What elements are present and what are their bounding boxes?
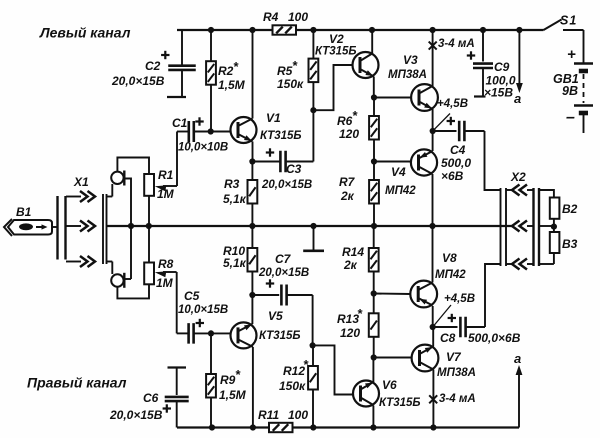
svg-text:C6: C6 (143, 391, 159, 405)
headphone B2 (550, 198, 560, 219)
resistor R7 (369, 162, 379, 227)
label C1 value (178, 142, 228, 154)
label battery minus (566, 109, 575, 126)
wire X1 middle contact row (66, 225, 81, 227)
label B3 (562, 237, 578, 251)
label V8 (435, 251, 466, 281)
wire V7 emitter up (432, 327, 434, 347)
label C1 plus (195, 117, 203, 125)
junction R6 bottom / V4 base (371, 158, 377, 164)
battery GB1 (574, 64, 593, 134)
wire X2 bottom row (506, 253, 554, 264)
svg-text:*: * (235, 367, 241, 382)
label C4 (441, 143, 471, 183)
capacitor C2 (167, 30, 196, 97)
svg-text:100: 100 (288, 10, 308, 24)
svg-text:10,0×10В: 10,0×10В (178, 142, 228, 154)
wire B3 top (553, 226, 555, 232)
capacitor C7 (252, 285, 312, 306)
resistor R3 (248, 162, 258, 227)
wire C7 to R12 node (312, 295, 314, 345)
switch S1 (544, 20, 584, 31)
wire V8 base (374, 293, 411, 296)
junction on top rail (369, 27, 375, 33)
resistor R13 (369, 294, 379, 358)
svg-text:R1: R1 (158, 168, 174, 182)
svg-text:×15В: ×15В (484, 86, 513, 100)
wire C3 to R5 node (312, 110, 314, 161)
wire V4 base (374, 161, 411, 163)
wire R1 to middle rail (148, 196, 150, 226)
wire V2 base path (313, 65, 353, 110)
svg-text:R7: R7 (339, 175, 356, 189)
label battery plus (567, 46, 576, 63)
resistor R2 (206, 30, 216, 132)
svg-text:2к: 2к (340, 189, 355, 203)
junction on middle rail (249, 223, 255, 229)
svg-text:20,0×15В: 20,0×15В (111, 74, 165, 88)
label R6 120 (337, 108, 359, 141)
junction on bottom rail (370, 424, 376, 430)
svg-text:+4,5В: +4,5В (437, 98, 468, 110)
junction on bottom rail (209, 424, 215, 430)
wire V8 emitter down (432, 306, 434, 327)
wire top circle to R1 (117, 158, 149, 175)
ground symbol (303, 226, 324, 251)
junction V2 emitter / R6 / V3 base (371, 94, 377, 100)
label C3 plus (266, 148, 274, 156)
R1 wiper arrow (155, 185, 177, 191)
connector X2 socket side (501, 188, 507, 266)
label R8 1M (156, 257, 174, 290)
junction on bottom rail (310, 424, 316, 430)
wire V7 collector down with current mark (432, 370, 434, 428)
svg-text:1М: 1М (156, 276, 174, 290)
wire top supply rail (177, 29, 544, 31)
wire V5 collector down (252, 347, 254, 428)
svg-text:В3: В3 (562, 237, 578, 251)
svg-text:V1: V1 (266, 111, 281, 125)
svg-text:150к: 150к (277, 77, 304, 91)
label B2 (562, 202, 578, 216)
wire V3 emitter down (432, 109, 434, 131)
junction output node (top) (430, 128, 436, 134)
node a (bottom) arrow (516, 365, 523, 428)
svg-text:R4: R4 (263, 10, 279, 24)
svg-text:+: + (567, 46, 576, 63)
label C7 (258, 252, 309, 279)
wire C4 to X2 top row (485, 131, 501, 190)
resistor R10 (248, 226, 258, 295)
svg-text:C7: C7 (275, 252, 292, 266)
svg-text:V6: V6 (382, 378, 397, 392)
wire V7 base (374, 357, 412, 359)
wire V6 emitter up (372, 358, 374, 383)
wire X2 middle row (527, 225, 554, 227)
junction on middle rail (146, 223, 152, 229)
connector X2 plug side (534, 188, 540, 266)
label C9 (484, 60, 516, 100)
wire bottom circle contact (124, 278, 131, 280)
svg-text:V3: V3 (403, 53, 418, 67)
label S1 (560, 14, 577, 28)
svg-text:КТ315Б: КТ315Б (315, 46, 357, 58)
wire top circle contact to center tap (124, 179, 131, 280)
label R14 2k (342, 245, 364, 272)
potentiometer R1 (144, 174, 154, 196)
label R1 1M (157, 168, 175, 201)
svg-text:120: 120 (339, 127, 359, 141)
label left channel (39, 25, 131, 41)
wire V4 collector to middle rail (432, 174, 434, 226)
resistor R5 (309, 30, 319, 110)
label +4.5V (bottom) (433, 293, 475, 327)
svg-text:В1: В1 (16, 205, 32, 219)
junction on top rail (480, 27, 486, 33)
resistor R6 (369, 98, 379, 162)
svg-text:×6В: ×6В (441, 169, 464, 183)
wire X1 top contact row (66, 184, 112, 197)
svg-text:R14: R14 (342, 245, 364, 259)
capacitor C6 (165, 368, 189, 428)
label R5 150k (277, 58, 304, 91)
junction on middle rail (310, 223, 316, 229)
wire bottom circle to R8 (117, 285, 149, 299)
svg-text:C1: C1 (172, 116, 188, 130)
wire V6 collector down (372, 406, 374, 428)
transistor V3 (411, 84, 438, 111)
connector X1 socket side (103, 194, 107, 264)
svg-text:20,0×15В: 20,0×15В (261, 179, 312, 191)
wire X1 bottom contact row (66, 262, 112, 275)
svg-text:C3: C3 (286, 162, 302, 176)
resistor R12 (308, 345, 318, 427)
socket contact circle (bottom) (111, 273, 124, 288)
junction V1 emitter node (249, 158, 255, 164)
current mark 3-4mA (bottom) (429, 395, 437, 403)
svg-text:КТ315Б: КТ315Б (379, 397, 421, 409)
capacitor C5 (177, 272, 232, 344)
junction on top rail (430, 27, 436, 33)
svg-text:МП38А: МП38А (437, 367, 476, 379)
svg-text:*: * (352, 108, 358, 123)
wire V4 emitter up (432, 131, 434, 151)
label C1 (172, 116, 188, 130)
svg-text:КТ315Б: КТ315Б (259, 330, 301, 342)
svg-text:500,0: 500,0 (441, 156, 471, 170)
svg-text:В2: В2 (562, 202, 578, 216)
label C3 (286, 162, 302, 176)
wire B2 to common (553, 219, 555, 226)
junction output node (bottom) (430, 324, 436, 330)
wire C8 to X2 bottom row (485, 264, 500, 327)
label R3 5.1k (223, 177, 247, 206)
svg-text:20,0×15В: 20,0×15В (258, 267, 309, 279)
svg-text:V2: V2 (329, 32, 344, 46)
wire battery top lead (583, 30, 585, 63)
label X1 (73, 175, 89, 189)
transistor V2 (353, 52, 379, 78)
contact arrow X2 bottom (512, 259, 527, 270)
svg-text:R2: R2 (218, 64, 234, 78)
svg-text:R6: R6 (337, 114, 353, 128)
junction on bottom rail (250, 424, 256, 430)
R8 wiper arrow (155, 271, 177, 277)
svg-text:500,0×6В: 500,0×6В (468, 331, 521, 345)
svg-text:МП42: МП42 (435, 269, 466, 281)
svg-text:МП38А: МП38А (388, 69, 427, 81)
transistor V1 (231, 117, 257, 143)
svg-text:2к: 2к (343, 258, 358, 272)
svg-text:КТ315Б: КТ315Б (260, 130, 302, 142)
svg-text:V8: V8 (442, 251, 457, 265)
wire V6 base path (313, 345, 353, 394)
svg-text:С8: С8 (440, 331, 456, 345)
resistor R11 (269, 423, 293, 432)
junction on middle rail (371, 223, 377, 229)
junction R12/C7/V6 base node (310, 342, 316, 348)
wire V2 collector to top rail (371, 30, 373, 54)
label V4 (385, 165, 416, 197)
junction on middle rail (429, 223, 435, 229)
svg-text:3-4 мА: 3-4 мА (438, 38, 475, 50)
svg-text:R3: R3 (224, 177, 240, 191)
label GB1 9V (553, 72, 579, 98)
junction V5 emitter node (249, 292, 255, 298)
svg-text:5,1к: 5,1к (223, 192, 247, 206)
label C5 (178, 289, 228, 316)
label V3 (388, 53, 427, 81)
resistor R9 (206, 333, 216, 427)
junction on middle rail (128, 223, 134, 229)
svg-text:C9: C9 (494, 60, 510, 74)
svg-text:S1: S1 (560, 14, 577, 28)
svg-text:X1: X1 (73, 175, 89, 189)
label C5 plus (196, 319, 204, 327)
label R2 1.5M (218, 59, 246, 92)
label 3-4 mA (bottom) (439, 393, 476, 405)
junction on top rail (310, 27, 316, 33)
transistor V4 (411, 149, 437, 175)
contact arrow X1 middle (80, 221, 95, 232)
junction C1/R2/V1 base (208, 128, 214, 134)
junction V6 emitter / R13 / V7 base (371, 354, 377, 360)
junction on top rail (208, 27, 214, 33)
resistor R4 (273, 25, 297, 34)
svg-text:150к: 150к (279, 379, 306, 393)
svg-text:*: * (233, 59, 239, 74)
junction on top rail (516, 27, 522, 33)
svg-text:МП42: МП42 (385, 185, 416, 197)
svg-text:10,0×15В: 10,0×15В (178, 304, 228, 316)
transistor V8 (410, 281, 437, 308)
transducer B1 (4, 219, 52, 236)
label C6 plus (163, 404, 171, 412)
svg-text:120: 120 (340, 326, 360, 340)
label V7 (437, 350, 476, 379)
current mark 3-4mA (top) (429, 42, 437, 50)
label C3 value (261, 179, 312, 191)
svg-text:*: * (357, 306, 363, 321)
label X2 (510, 170, 526, 184)
label V6 (379, 378, 421, 409)
label B1 (16, 205, 32, 219)
svg-text:а: а (514, 351, 521, 366)
label R7 2k (339, 175, 356, 203)
contact arrow X1 top (80, 191, 95, 202)
connector X1 plug side (58, 196, 66, 260)
svg-text:R9: R9 (220, 373, 236, 387)
capacitor C4 (433, 121, 485, 142)
label C7 plus (266, 279, 274, 287)
node a (top) arrow (516, 30, 523, 93)
junction on top rail (249, 27, 255, 33)
capacitor C1 (177, 121, 232, 142)
label C2 (111, 59, 165, 88)
wire bottom supply rail (177, 426, 519, 428)
junction R14 bottom / V8 base (371, 290, 377, 296)
transistor V6 (353, 381, 379, 407)
svg-text:R11: R11 (258, 408, 279, 422)
svg-text:C5: C5 (184, 289, 200, 303)
potentiometer R8 (144, 263, 154, 285)
svg-text:R13: R13 (337, 312, 359, 326)
svg-text:R5: R5 (277, 64, 293, 78)
label R4 100 (263, 10, 308, 24)
label R11 100 (258, 408, 308, 422)
junction C5/R9/V5 base (208, 330, 214, 336)
label right channel (27, 375, 127, 391)
wire V2 emitter down (373, 77, 375, 98)
socket contact circle (top) (111, 171, 124, 186)
svg-text:20,0×15В: 20,0×15В (109, 408, 163, 422)
svg-text:C2: C2 (145, 59, 161, 73)
wire V3 base (374, 97, 412, 99)
svg-text:V7: V7 (446, 350, 462, 364)
svg-text:–: – (566, 109, 575, 126)
svg-text:1М: 1М (157, 187, 175, 201)
capacitor C8 (433, 317, 485, 338)
label C9 plus (467, 51, 475, 59)
svg-text:+4,5В: +4,5В (444, 293, 475, 305)
svg-text:1,5М: 1,5М (219, 388, 247, 402)
label V2 (315, 32, 357, 58)
svg-text:а: а (514, 91, 521, 106)
svg-text:5,1к: 5,1к (223, 256, 247, 270)
label R12 150k (279, 357, 309, 393)
label R13 120 (337, 306, 363, 340)
svg-text:C4: C4 (450, 143, 466, 157)
wire middle common rail (107, 225, 513, 227)
label V1 (260, 111, 302, 142)
label C8 plus (448, 314, 456, 322)
svg-text:3-4 мА: 3-4 мА (439, 393, 476, 405)
svg-text:Правый канал: Правый канал (27, 375, 127, 391)
junction B2/B3 common (551, 224, 557, 230)
capacitor C9 (473, 30, 493, 97)
svg-text:R12: R12 (283, 364, 305, 378)
svg-text:V5: V5 (268, 309, 283, 323)
resistor R14 (369, 226, 379, 294)
wire V8 collector to middle rail (432, 226, 434, 283)
label C2 plus (161, 51, 169, 59)
wire R1 wiper to C1 (176, 132, 178, 187)
svg-text:100: 100 (288, 408, 308, 422)
wire V3 collector to rail with current mark (432, 30, 434, 86)
label C4 plus (447, 117, 455, 125)
svg-text:*: * (292, 58, 298, 73)
label a (top) (514, 91, 521, 106)
wire B1 to X1 (52, 226, 58, 228)
wire R8 to middle rail (148, 226, 150, 263)
contact arrow X2 middle (512, 221, 527, 232)
label C8 (440, 331, 521, 345)
svg-text:1,5М: 1,5М (218, 78, 246, 92)
svg-text:X2: X2 (510, 170, 526, 184)
label 3-4 mA (top) (438, 38, 475, 50)
svg-text:9В: 9В (562, 84, 578, 98)
label C6 (109, 391, 163, 422)
wire V5 emitter up (251, 295, 253, 324)
transistor V5 (231, 322, 257, 348)
svg-text:V4: V4 (391, 165, 406, 179)
label a (bottom) (514, 351, 521, 366)
svg-text:Левый канал: Левый канал (39, 25, 131, 41)
wire X2 top row (506, 190, 554, 198)
label R10 5.1k (223, 244, 247, 270)
contact arrow X1 bottom (80, 256, 95, 267)
headphone B3 (550, 232, 560, 253)
label R9 1.5M (219, 367, 247, 402)
contact arrow X2 top (512, 185, 527, 196)
junction on bottom rail (430, 424, 436, 430)
svg-text:R8: R8 (158, 257, 174, 271)
wire V1 emitter down (252, 142, 254, 162)
junction R5/C3/V2 base node (310, 107, 316, 113)
label +4.5V (top) (433, 98, 468, 131)
label V5 (259, 309, 301, 342)
transistor V7 (412, 345, 439, 372)
capacitor C3 (252, 151, 313, 173)
wire V1 collector to top rail (252, 30, 254, 119)
